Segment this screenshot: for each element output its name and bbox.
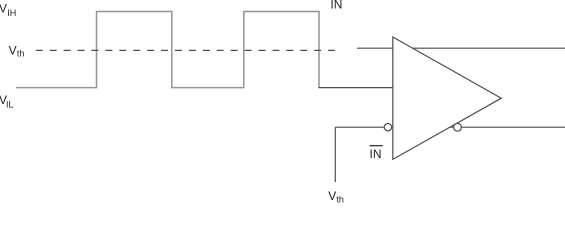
svg-text:IH: IH [7, 8, 16, 18]
wire: Vth vertical lead [334, 127, 336, 182]
label V_IH [0, 2, 16, 18]
Vth threshold dashed line [36, 49, 335, 51]
svg-text:V: V [328, 189, 336, 203]
label V_th (bottom) [328, 189, 344, 204]
svg-text:th: th [336, 194, 344, 204]
inversion bubble on output slope [454, 123, 462, 131]
buffer/comparator triangle U1 [393, 37, 502, 159]
label IN-bar (inverted output) [370, 146, 383, 161]
inversion bubble on left (Vth input) [384, 124, 391, 131]
svg-text:V: V [0, 2, 7, 16]
svg-text:th: th [17, 49, 25, 59]
wire: top input/output line through buffer [357, 47, 565, 49]
wire: bottom Vth input and inverted output line [335, 126, 565, 128]
svg-text:IN: IN [330, 0, 342, 12]
svg-text:IN: IN [370, 147, 382, 161]
label V_th (left) [9, 43, 25, 58]
label V_IL [0, 93, 14, 109]
waveform IN (square wave) [16, 12, 319, 88]
svg-text:IL: IL [6, 100, 14, 110]
wire: IN low level into buffer input [319, 87, 393, 89]
svg-text:V: V [9, 43, 17, 57]
